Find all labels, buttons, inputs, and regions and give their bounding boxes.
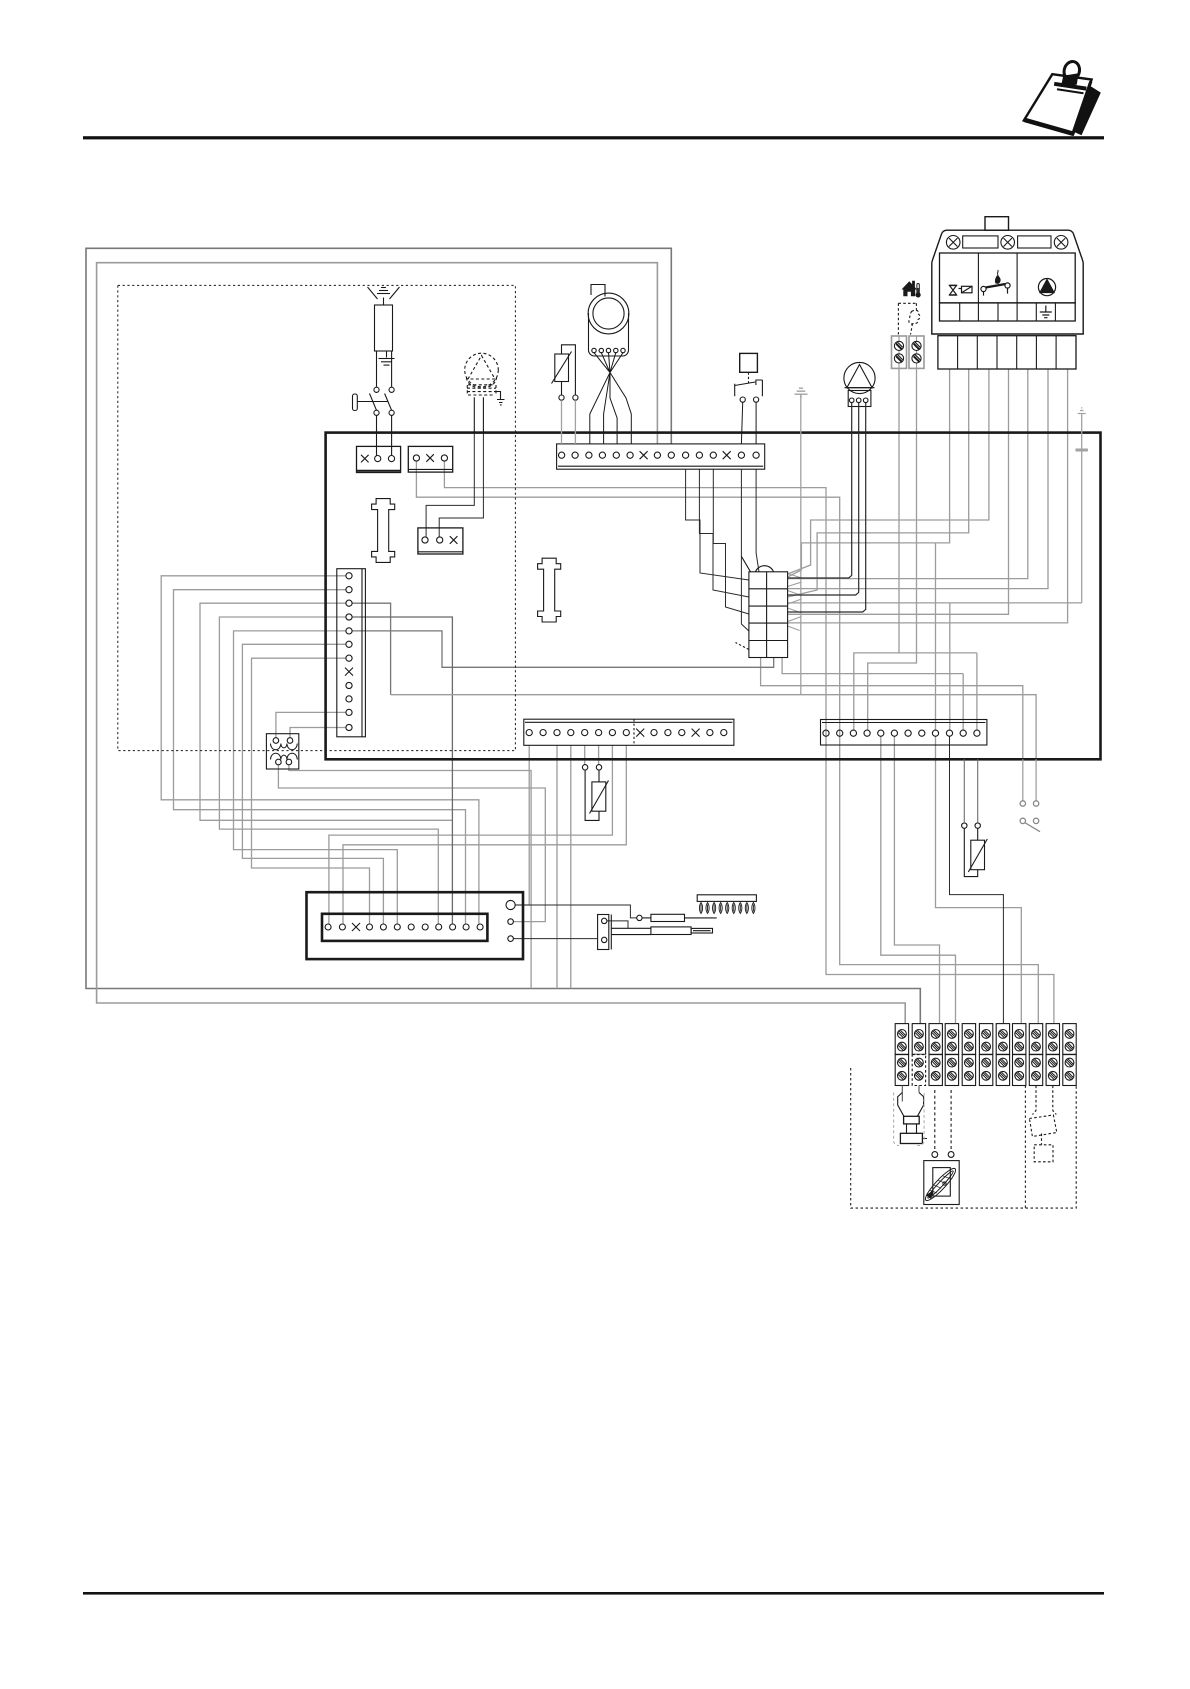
10-pin connector J1 — [736, 557, 788, 658]
terminal block TB-b — [909, 336, 924, 368]
wire: relay contact down — [289, 765, 531, 989]
wire: K2 to mains col9 — [416, 461, 1038, 1024]
wire: earth capacitor / J1 row2 bus — [788, 602, 1082, 604]
wire: strip3-3 down — [556, 745, 558, 988]
external switch contact (right, below box) — [1020, 759, 1040, 831]
wire: strip4-5 to mains col4 — [881, 736, 956, 1024]
wire: strip3-8 to panel terminal 2 — [343, 745, 626, 924]
dotted external boxes — [851, 1068, 1076, 1208]
mains terminal rail (11 columns) — [895, 1024, 1076, 1086]
bottom rule — [83, 1592, 1104, 1595]
wire: strip2-5 to panel terminal 6 — [234, 631, 398, 924]
wire: room stat block b to strip4-4 — [868, 368, 917, 730]
fan earth tail — [494, 392, 505, 405]
wire: strip4-10 to mains col7 — [950, 736, 1004, 1024]
wire: strip1-14 to J1 row4 — [741, 469, 749, 631]
jumper link H1 — [372, 499, 395, 563]
wire: J1 bottom to external switch L — [761, 658, 1023, 760]
wire: strip2-3 through down — [352, 603, 391, 695]
wire: strip3-4 down — [570, 745, 572, 988]
room unit dashed plug — [1029, 1086, 1056, 1162]
boiler return NTC (right, below box) — [962, 759, 988, 876]
wire: strip1-12 to J1 row3 — [713, 469, 749, 614]
gas valve / stepper motor — [588, 285, 631, 444]
jumper link H2 — [538, 558, 561, 622]
wire: strip1-15 to J1 top — [756, 469, 759, 572]
wire: strip3-5 to DHW sensor — [584, 745, 586, 764]
ignition isolator switch (double pole) — [353, 351, 395, 456]
wire: strip4-9 branch — [935, 543, 937, 731]
wire: earth run to external switch R — [391, 695, 1037, 760]
wire: strip3-6 to DHW sensor — [598, 745, 600, 764]
terminal strip X4 (right bottom) — [821, 720, 987, 746]
wire: programmer w1 to J1 — [788, 369, 950, 577]
wire: strip4-11 stub — [962, 674, 964, 731]
mains loop wire inner — [97, 263, 906, 1024]
wire: strip2-4 through to panel terminal 10 — [352, 617, 452, 924]
wire: bus at 652.9 — [899, 652, 977, 654]
burner bar with jets — [697, 895, 756, 914]
icon: pump symbol — [1038, 279, 1055, 296]
wire: programmer w2 to J1 — [788, 369, 969, 597]
wire: J1 funnel pairs — [788, 574, 802, 631]
earth in cell — [1040, 306, 1052, 318]
wire: selector low to pot — [513, 938, 597, 940]
earth symbol (gray, centre) — [795, 388, 808, 695]
icon: burner — [981, 270, 1010, 296]
top rule — [83, 136, 1104, 139]
wire: programmer w4 to J1 — [788, 369, 1009, 614]
MAIN GROUPS — [86, 248, 920, 1023]
pump — [844, 362, 875, 406]
dotted enclosure box — [118, 285, 516, 750]
pump wires — [788, 403, 866, 612]
relay K4 (4-pole coil) — [266, 734, 298, 769]
wire: bus to strip4-10 — [949, 603, 951, 731]
terminal block TB-a — [892, 336, 907, 368]
time clock — [922, 1090, 959, 1205]
wire: strip4-12 stub — [976, 653, 978, 731]
wire: strip2-3 to panel terminal 10 — [200, 603, 452, 820]
wire: strip4-6 to mains col3 — [894, 736, 939, 1024]
wire: K2 to mains col10 — [444, 461, 1054, 1024]
wire: relay contact to pot feed — [278, 765, 545, 922]
boiler thermistor (top) — [552, 345, 579, 444]
main control board box — [326, 433, 1101, 760]
frost stat dashed sensor — [898, 303, 920, 334]
wire: strip2-1 to panel terminal 12 — [161, 576, 479, 924]
wire: programmer w3 to J1 — [788, 369, 989, 574]
setpoint resistor — [637, 914, 717, 921]
terminal strip X3 (middle bottom) — [524, 719, 734, 745]
wire: fan to K3-2 — [439, 433, 483, 537]
programmer unit — [932, 217, 1083, 369]
wire: strip3-1 to selector circle — [515, 745, 529, 905]
clipboard icon — [1024, 60, 1101, 135]
bottom-left terminal box — [307, 892, 524, 959]
wire: strip2-5 through to J1 bottom — [352, 631, 774, 667]
wire: fan to K3-1 — [426, 433, 474, 537]
wire: relay coil to strip2-9 — [276, 712, 346, 737]
connector box K2 (3-pole) — [408, 446, 452, 472]
wire: J1 bottom to strip4-11 stub — [782, 658, 963, 674]
wire: strip2-4 to panel terminal 9 — [219, 617, 438, 924]
mains plug + fuse — [894, 1086, 927, 1146]
wire: strip4-9 to mains col8 — [936, 736, 1022, 1024]
house/frost icon — [902, 281, 921, 298]
terminal strip X2 (left vertical) — [337, 569, 366, 737]
fan (dashed) — [465, 353, 499, 395]
mains loop wire outer — [86, 248, 920, 1023]
connector box K1 (3-pole, left) — [357, 446, 401, 472]
wiper / slider — [611, 927, 712, 935]
wire: room stat block a to strip4-3 — [854, 368, 899, 730]
wire: pot wiper jog — [607, 921, 628, 928]
wire: strip2-6 to panel terminal 5 — [242, 644, 383, 924]
wire: strip1-11 to J1 row2 — [699, 469, 749, 597]
fan wires — [474, 397, 483, 432]
wire: strip1-10 to J1 row1 — [686, 469, 749, 580]
wire: programmer w6 to J1 — [788, 369, 1048, 589]
wire: strip3-7 to panel terminal 1 — [329, 745, 613, 924]
terminal strip X1 (top) — [557, 444, 765, 469]
wire: relay coil to strip2-10 — [290, 728, 346, 738]
overheat stat (square + switch) — [735, 353, 763, 444]
wire: strip2-7 to panel terminal 4 — [252, 658, 370, 924]
ignition electrode assembly — [368, 287, 400, 365]
small cells row — [940, 303, 1076, 321]
wire: selector to resistor — [515, 905, 637, 918]
wire: programmer w5 to J1 — [788, 369, 1028, 579]
wire: programmer w7 to J1 — [788, 369, 1068, 623]
crossed wires to strip — [590, 353, 632, 444]
earth capacitor symbol (top right inside box) — [1076, 408, 1088, 603]
potentiometer block — [598, 915, 612, 950]
DHW thermistor (below box) — [582, 765, 608, 821]
icon: hourglass + damper — [949, 285, 972, 295]
connector box K3 (fan connector) — [418, 528, 463, 554]
connector block row — [938, 336, 1076, 369]
wire: strip2-2 to panel terminal 11 — [174, 590, 466, 924]
